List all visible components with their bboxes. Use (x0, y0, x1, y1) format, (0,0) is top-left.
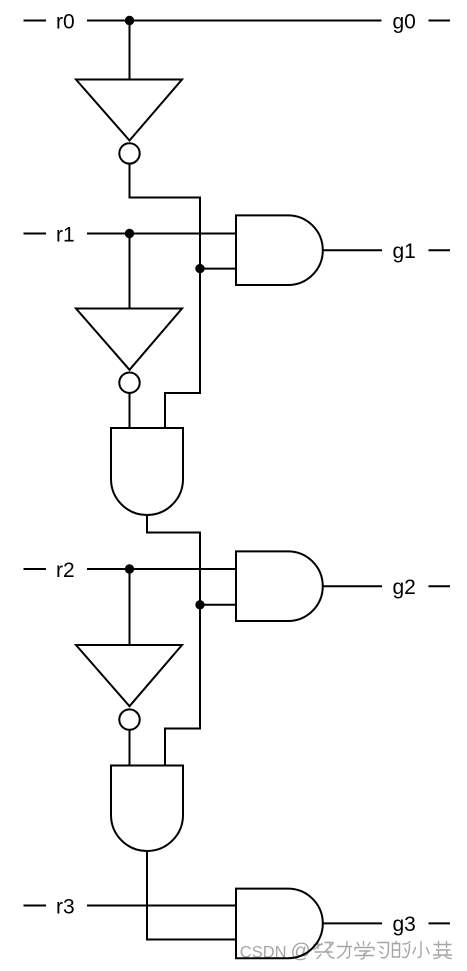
wire n2 down-step to AND U7 input B (165, 605, 200, 766)
svg-text:CSDN: CSDN (240, 943, 287, 961)
svg-text:g2: g2 (393, 576, 416, 599)
svg-text:r3: r3 (56, 895, 75, 918)
AND gate U6 (g2) (236, 551, 323, 621)
AND gate U7 (vertical) (111, 766, 183, 852)
node r1 junction (126, 230, 133, 237)
inverter U1 triangle (76, 80, 182, 141)
svg-text:@: @ (291, 941, 311, 963)
wire r1 row to AND U4 input A (87, 233, 236, 235)
wire r0 row to g0 (87, 20, 382, 22)
output stub g0 (429, 20, 451, 22)
wire r0 to inverter U1 input (129, 21, 131, 80)
inverter U1 bubble (119, 143, 139, 163)
wire r2 to inverter U5 input (129, 569, 131, 645)
input stub r3 (24, 905, 47, 907)
svg-text:r2: r2 (56, 559, 75, 582)
svg-text:g0: g0 (393, 10, 416, 33)
AND gate U4 (g1) (236, 215, 323, 285)
inverter U5 bubble (119, 709, 139, 729)
node NOT_r0 junction (196, 265, 203, 272)
output stub g1 (429, 249, 451, 251)
AND gate U2 (vertical) (111, 428, 183, 515)
node r2 junction (126, 565, 133, 572)
wire U2 output step to x200 (147, 515, 200, 605)
wire U5 output to AND U7 input A (129, 730, 131, 766)
wire U3 output to AND U2 input A (129, 393, 131, 428)
inverter U5 triangle (76, 645, 182, 706)
watermark CJK glyph approximations (314, 942, 452, 960)
inverter U3 triangle (76, 309, 182, 370)
node r0 junction (126, 17, 133, 24)
wire U4 output to g1 (323, 249, 382, 251)
wire U6 output to g2 (323, 585, 382, 587)
input stub r2 (24, 568, 47, 570)
wire r2 row to AND U6 input A (87, 568, 236, 570)
wire NOT_r0 down-step to AND U2 input B (165, 269, 200, 428)
node n2 junction (196, 601, 203, 608)
output stub g3 (429, 922, 451, 924)
wire U7 output step to AND U8 input B (147, 851, 236, 940)
inverter U3 bubble (119, 373, 139, 393)
svg-text:g3: g3 (393, 913, 416, 936)
svg-text:g1: g1 (393, 240, 416, 263)
wire U8 output to g3 (323, 922, 382, 924)
wire NOT_r0 to AND U4 input B (200, 268, 236, 270)
input stub r0 (24, 20, 47, 22)
AND gate U8 (g3) (236, 889, 323, 959)
output stub g2 (429, 585, 451, 587)
wire r3 row to AND U8 input A (87, 905, 236, 907)
input stub r1 (24, 233, 47, 235)
svg-text:r1: r1 (56, 223, 75, 246)
wire r1 to inverter U3 input (129, 234, 131, 309)
svg-text:r0: r0 (56, 10, 75, 33)
wire U1 output step to x200 (130, 164, 201, 269)
wire n2 to AND U6 input B (200, 604, 236, 606)
